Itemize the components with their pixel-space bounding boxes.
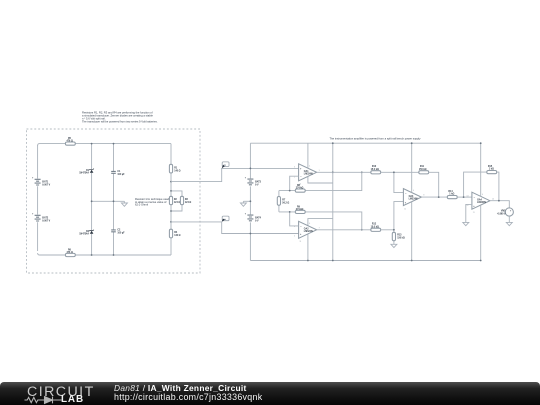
wire: supply battery stack vertical — [249, 143, 251, 260]
resistor R14 — [447, 190, 457, 199]
svg-text:+: + — [32, 214, 34, 216]
svg-text:C1: C1 — [117, 171, 121, 173]
capacitor C2 — [111, 230, 125, 235]
svg-text:140 Ω: 140 Ω — [174, 170, 180, 173]
wire: right divider vertical — [170, 144, 172, 255]
zener diode D2 — [79, 230, 94, 236]
wire: top rail of transducer — [38, 144, 171, 146]
ground (transducer mid) — [121, 201, 127, 206]
wire: bridge output B to IA — [171, 222, 299, 234]
resistor R10 — [371, 166, 381, 174]
resistor R15 — [487, 166, 497, 174]
resistor R4 — [169, 229, 180, 238]
svg-text:274 kΩ: 274 kΩ — [296, 187, 304, 190]
svg-text:274 kΩ: 274 kΩ — [296, 208, 304, 211]
op-amp OA3 — [403, 189, 424, 206]
svg-text:R11: R11 — [420, 166, 425, 168]
svg-text:15.0 kΩ: 15.0 kΩ — [371, 169, 379, 171]
op-amp OA4 — [467, 192, 494, 209]
op-amp OA1 — [294, 164, 320, 181]
svg-text:11: 11 — [473, 212, 475, 214]
svg-text:56.2 Ω: 56.2 Ω — [282, 202, 289, 204]
svg-text:1N4734A: 1N4734A — [79, 172, 89, 175]
svg-text:9 V: 9 V — [255, 184, 259, 186]
resistor R7 — [277, 197, 289, 206]
wire: R3 parallel branch — [171, 191, 182, 211]
wire: left battery wire — [37, 145, 39, 251]
svg-text:140 Ω: 140 Ω — [174, 234, 180, 237]
resistor R12 — [371, 224, 381, 232]
junction dots output stage — [438, 196, 440, 198]
svg-text:R15: R15 — [488, 166, 493, 168]
wire: R12 to OA3 noninverting node — [381, 202, 404, 230]
svg-text:BAT3: BAT3 — [255, 180, 262, 183]
svg-text:476 Ω: 476 Ω — [67, 140, 73, 143]
footer title text — [114, 383, 247, 393]
svg-text:100 µF: 100 µF — [117, 233, 125, 235]
svg-text:LM324N: LM324N — [304, 230, 313, 233]
svg-text:BAT4: BAT4 — [255, 216, 262, 219]
wire: OA4 V+ stub — [480, 143, 482, 196]
wire: mid ground wire — [92, 200, 125, 202]
wire: bottom rail of transducer — [38, 253, 171, 255]
wire: OA4 noninverting to ground — [466, 204, 472, 222]
svg-text:15.0 kΩ: 15.0 kΩ — [371, 226, 379, 228]
svg-text:R6: R6 — [68, 249, 72, 251]
svg-text:+: + — [245, 213, 247, 215]
wire: OA4 V- stub — [480, 205, 482, 261]
svg-text:LM324N: LM324N — [304, 173, 313, 176]
svg-text:R12: R12 — [372, 224, 377, 226]
wire: VM1 to ground — [508, 216, 510, 222]
wire: +9V top rail — [250, 142, 480, 144]
svg-text:11: 11 — [404, 208, 406, 210]
svg-text:4: 4 — [309, 165, 310, 167]
annotation note 1 — [82, 111, 158, 124]
svg-text:1 kΩ: 1 kΩ — [489, 169, 494, 171]
svg-text:100 µF: 100 µF — [117, 174, 125, 176]
wire: bridge output A to IA — [171, 168, 299, 181]
svg-text:9 V: 9 V — [255, 220, 259, 222]
footer url text — [114, 392, 262, 402]
svg-text:R1: R1 — [174, 168, 178, 170]
svg-text:9.007 V: 9.007 V — [42, 185, 50, 187]
svg-text:4: 4 — [482, 194, 483, 196]
svg-text:R2: R2 — [174, 199, 178, 201]
resistor R3 — [180, 196, 191, 204]
junction dots left box — [91, 143, 93, 145]
footer bar — [0, 382, 540, 405]
svg-text:R5: R5 — [68, 138, 72, 140]
svg-text:476 Ω: 476 Ω — [67, 251, 73, 254]
svg-text:D2: D2 — [86, 231, 90, 233]
wire: R15 to OA4 output — [497, 172, 499, 201]
wire: feedback bottom horizontal — [279, 212, 362, 230]
wire: OA1 V+ stub — [307, 143, 309, 168]
svg-text:124 Ω: 124 Ω — [174, 201, 180, 204]
op-amp OA2 — [294, 221, 320, 238]
svg-text:62.0 Ohms: 62.0 Ohms — [135, 203, 149, 207]
svg-text:BAT1: BAT1 — [42, 181, 49, 184]
wire: capacitor branch vertical — [113, 144, 115, 255]
wire: OA4 output — [490, 201, 509, 208]
svg-text:R14: R14 — [448, 190, 453, 193]
wire: OA3 output to R14 — [421, 196, 447, 198]
resistor R8 — [295, 185, 305, 192]
ground (VM1) — [506, 222, 512, 225]
svg-text:C2: C2 — [117, 230, 121, 232]
zener diode D1 — [79, 169, 94, 175]
svg-text:LM324N: LM324N — [477, 201, 486, 204]
wire: shared supply vertical — [332, 143, 334, 260]
dashed transducer box — [27, 129, 201, 273]
wire: zener branch vertical — [91, 144, 93, 255]
CircuitLab logo — [27, 384, 95, 400]
wire: OA2 V- stub — [307, 234, 309, 261]
battery BAT4 — [245, 213, 262, 222]
resistor R1 — [169, 164, 180, 173]
svg-text:R3: R3 — [185, 199, 189, 201]
svg-text:LM324N: LM324N — [409, 197, 418, 200]
wire: OA3 V+ stub — [411, 143, 413, 192]
svg-text:-0.860 V: -0.860 V — [497, 213, 506, 215]
svg-text:3: 3 — [294, 167, 295, 169]
svg-text:+: + — [32, 178, 34, 180]
ground (OA4 +in) — [463, 222, 469, 225]
svg-text:+: + — [245, 177, 247, 179]
svg-text:12: 12 — [467, 205, 469, 207]
ground (supply mid) — [240, 201, 246, 206]
junction dots OA3 — [393, 171, 395, 173]
svg-text:150 kΩ: 150 kΩ — [397, 238, 405, 240]
svg-text:4: 4 — [413, 190, 414, 192]
wire: OA1 V- routing — [308, 177, 333, 183]
svg-text:8: 8 — [423, 195, 424, 197]
wire: R11 to OA3 output — [429, 172, 439, 197]
logo resistor-diode doodle — [25, 398, 44, 403]
voltmeter VM1 — [497, 208, 513, 216]
svg-text:BAT2: BAT2 — [42, 217, 49, 220]
wire: OA2 output to R12 — [317, 229, 371, 231]
svg-text:D1: D1 — [86, 170, 90, 172]
svg-text:150 kΩ: 150 kΩ — [419, 169, 427, 171]
wire: R7 gain branch — [278, 191, 280, 212]
resistor R6 — [65, 249, 75, 256]
junction dots supply — [250, 168, 252, 170]
annotation note 2 — [135, 197, 170, 207]
wire: feedback top horizontal — [279, 172, 362, 190]
svg-text:9.007 V: 9.007 V — [42, 221, 50, 223]
svg-text:1N4734A: 1N4734A — [79, 233, 89, 236]
resistor R5 — [65, 138, 75, 145]
net flag A — [222, 162, 229, 169]
svg-text:R10: R10 — [372, 166, 377, 168]
svg-text:2: 2 — [294, 176, 295, 178]
battery BAT3 — [245, 177, 262, 186]
battery BAT1 — [32, 178, 51, 187]
svg-text:R7: R7 — [282, 199, 286, 201]
wire: OA2 V+ routing — [308, 219, 333, 226]
resistor R13 — [392, 230, 405, 245]
wire: -9V bottom rail — [250, 260, 480, 262]
wire: OA3 V- stub — [411, 202, 413, 261]
wire: OA2 inverting input — [290, 212, 299, 226]
svg-text:4: 4 — [309, 223, 310, 225]
ground (R13) — [391, 244, 397, 247]
wire: OA4 feedback up — [464, 172, 487, 197]
junction dots feedback — [289, 190, 291, 192]
resistor R11 — [419, 166, 429, 174]
wire: OA1 inverting input — [290, 176, 299, 190]
wire: battery midpoint to ground — [243, 200, 250, 202]
svg-text:13: 13 — [467, 195, 469, 197]
svg-text:VM1: VM1 — [501, 210, 506, 212]
svg-text:The transducer will be powered: The transducer will be powered from two … — [82, 119, 158, 123]
svg-text:1: 1 — [319, 170, 320, 172]
svg-text:7: 7 — [319, 227, 320, 229]
resistor R9 — [295, 207, 305, 214]
wire: OA1 output to R10 — [317, 171, 371, 173]
net flag B — [222, 216, 229, 222]
wire: R10 to OA3 inverting node — [381, 172, 419, 192]
svg-text:124 Ω: 124 Ω — [185, 201, 191, 204]
junction dots divider — [170, 181, 172, 183]
resistor R2 — [169, 196, 180, 204]
svg-text:R4: R4 — [174, 231, 178, 234]
battery BAT2 — [32, 214, 51, 223]
svg-text:The instrumentation amplifier: The instrumentation amplifier is powered… — [330, 137, 422, 141]
wire: R14 to OA4 inverting input — [457, 196, 472, 198]
capacitor C1 — [111, 171, 125, 176]
svg-text:14: 14 — [492, 198, 494, 200]
svg-text:5: 5 — [294, 236, 295, 238]
svg-text:11: 11 — [300, 241, 302, 243]
svg-text:1 kΩ: 1 kΩ — [449, 194, 454, 196]
svg-text:R13: R13 — [397, 235, 402, 237]
